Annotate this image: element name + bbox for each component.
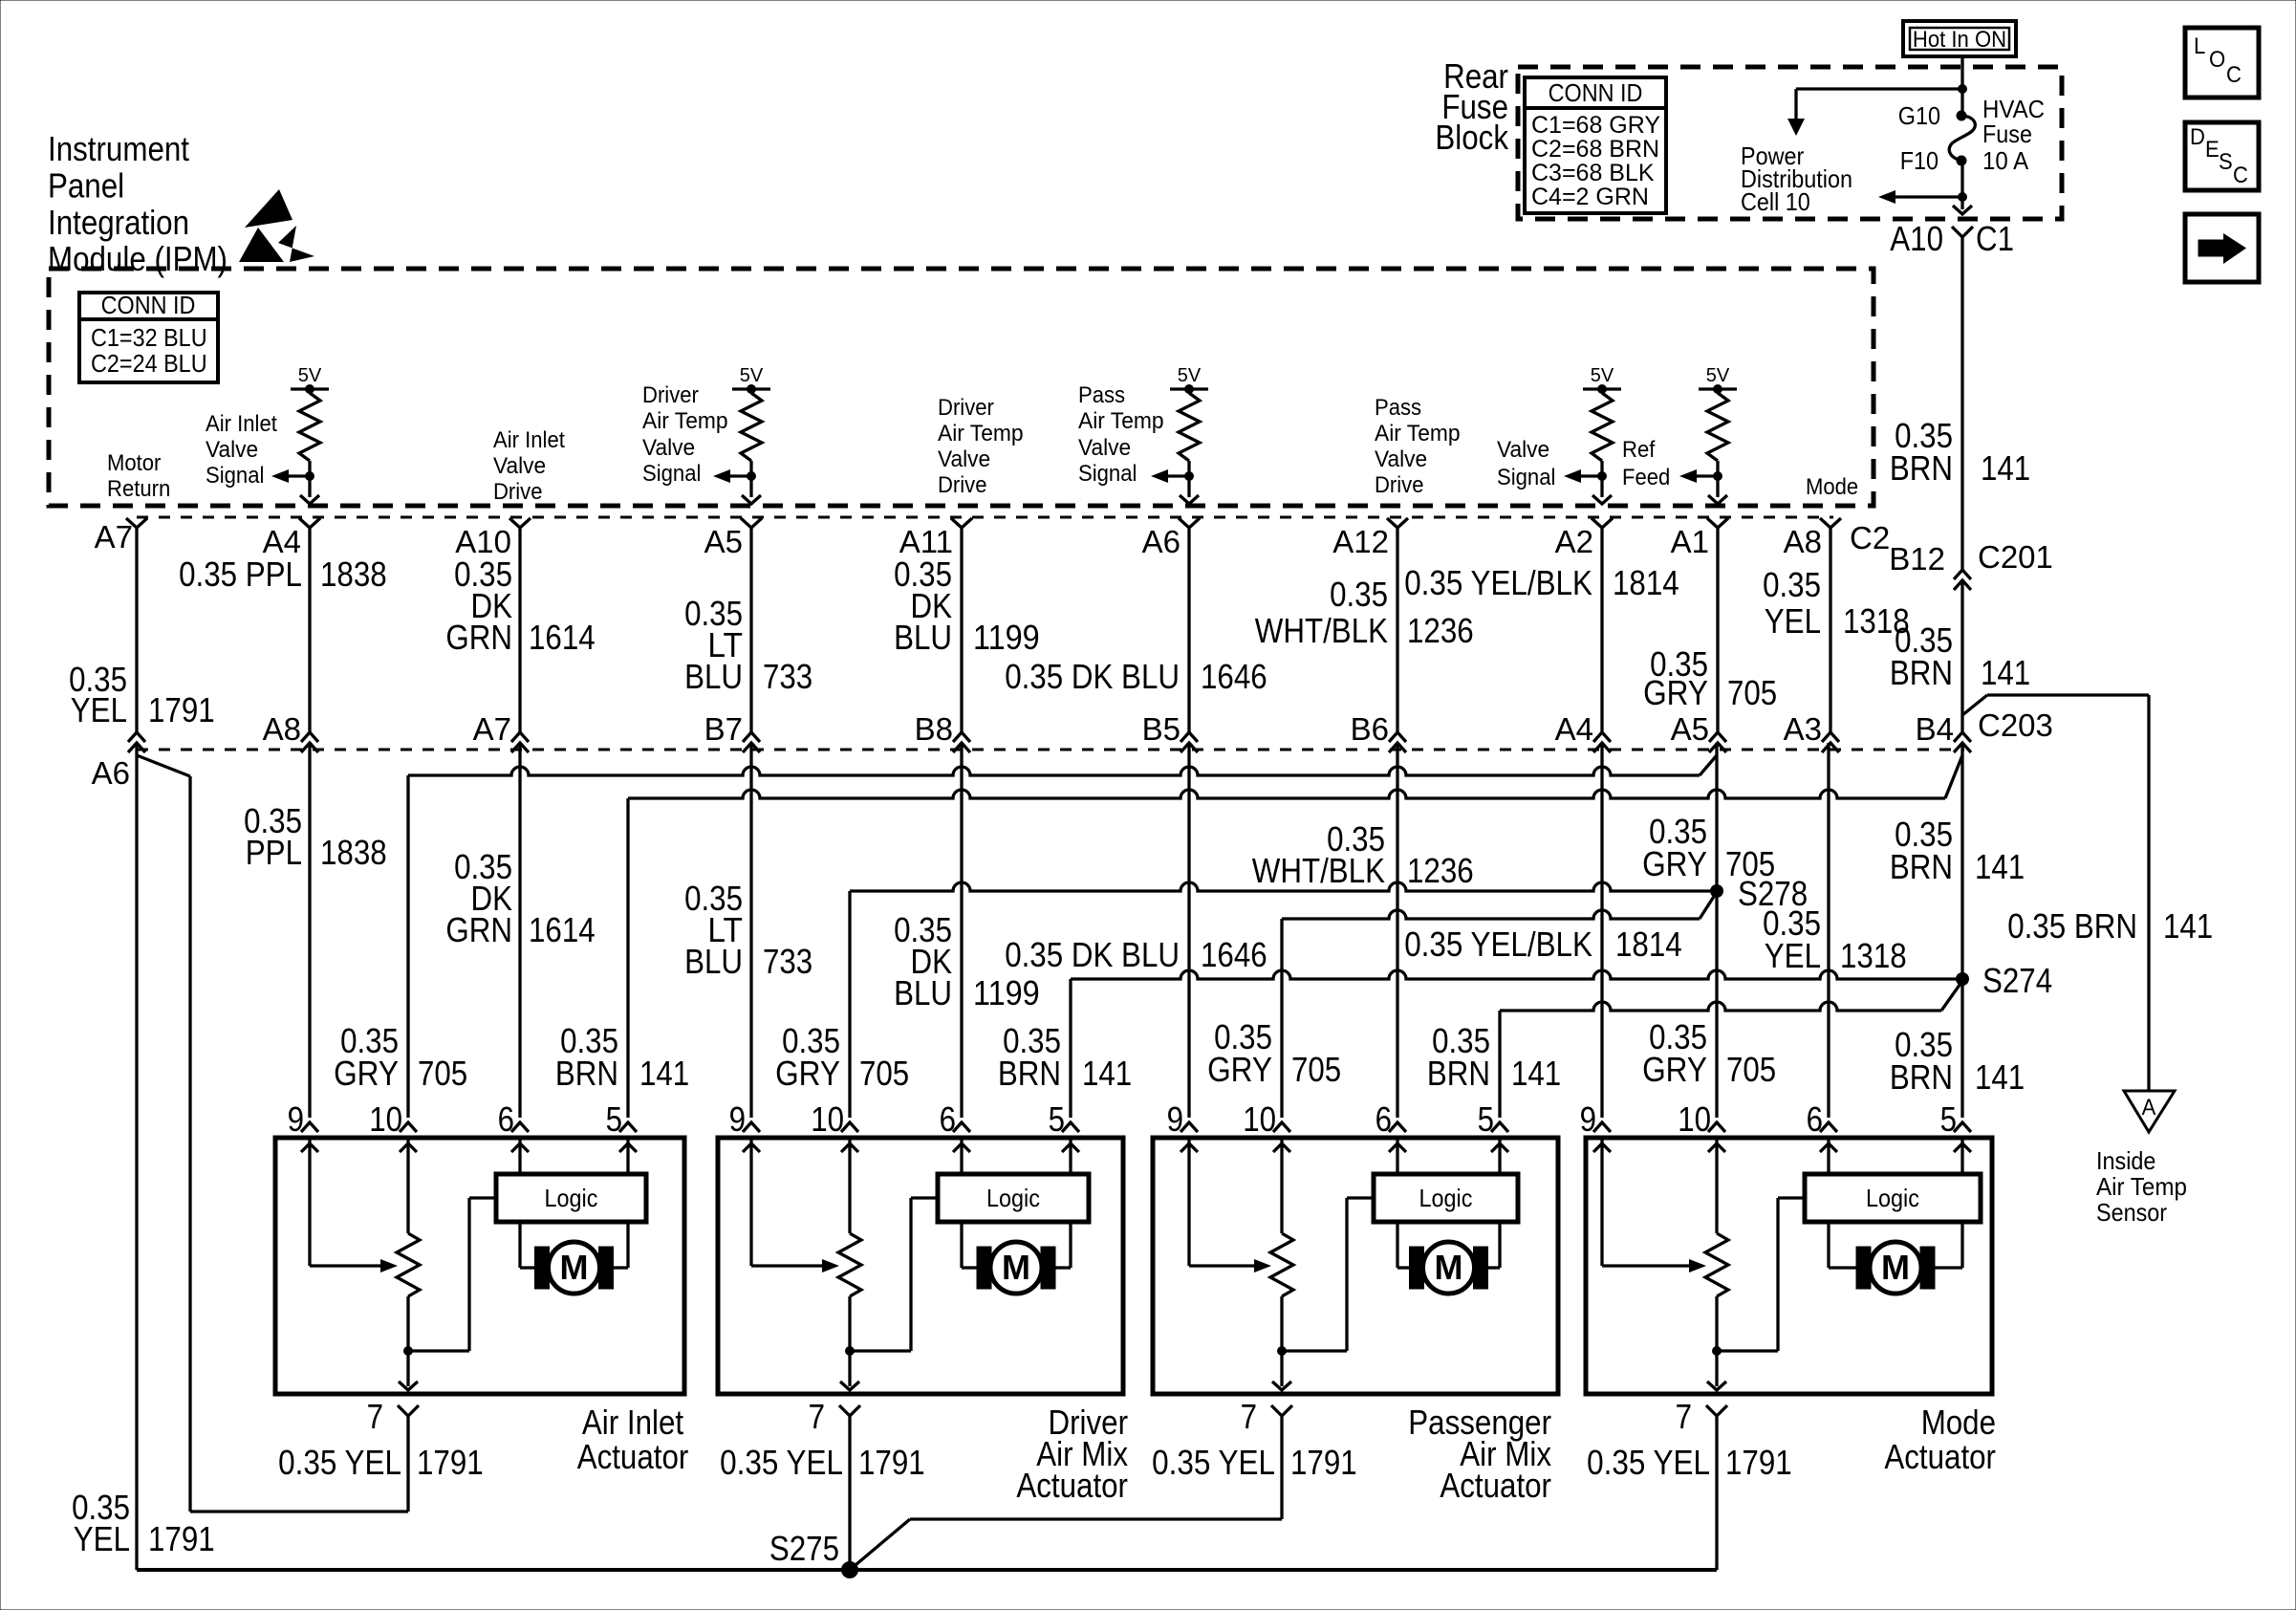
svg-text:BRN: BRN bbox=[1890, 653, 1953, 692]
svg-text:Pass: Pass bbox=[1078, 382, 1125, 408]
svg-text:C1=68 GRY: C1=68 GRY bbox=[1531, 112, 1660, 139]
svg-text:BLU: BLU bbox=[684, 657, 743, 696]
svg-text:C3=68 BLK: C3=68 BLK bbox=[1531, 160, 1655, 186]
svg-text:Valve: Valve bbox=[1375, 446, 1427, 472]
svg-text:Air Temp: Air Temp bbox=[2096, 1172, 2187, 1201]
svg-text:Hot In ON: Hot In ON bbox=[1913, 27, 2006, 53]
svg-text:0.35 YEL: 0.35 YEL bbox=[278, 1443, 401, 1482]
svg-text:Cell 10: Cell 10 bbox=[1741, 187, 1810, 216]
svg-text:6: 6 bbox=[498, 1099, 514, 1139]
svg-text:BLU: BLU bbox=[894, 618, 952, 657]
svg-text:Panel: Panel bbox=[48, 165, 124, 205]
svg-text:S275: S275 bbox=[769, 1529, 839, 1568]
svg-text:Feed: Feed bbox=[1622, 465, 1670, 490]
svg-text:WHT/BLK: WHT/BLK bbox=[1252, 851, 1385, 890]
svg-text:0.35 YEL/BLK: 0.35 YEL/BLK bbox=[1404, 925, 1592, 964]
svg-text:CONN ID: CONN ID bbox=[101, 291, 196, 319]
svg-text:705: 705 bbox=[1726, 1050, 1776, 1089]
svg-text:0.35 PPL: 0.35 PPL bbox=[179, 555, 302, 594]
svg-text:7: 7 bbox=[367, 1397, 383, 1436]
svg-text:GRY: GRY bbox=[1643, 673, 1708, 712]
svg-text:705: 705 bbox=[418, 1054, 467, 1093]
svg-text:A12: A12 bbox=[1332, 524, 1389, 559]
svg-text:YEL: YEL bbox=[1765, 601, 1821, 641]
svg-text:6: 6 bbox=[940, 1099, 956, 1139]
svg-text:A: A bbox=[2142, 1095, 2156, 1120]
svg-text:Mode: Mode bbox=[1921, 1403, 1996, 1442]
svg-text:705: 705 bbox=[1291, 1050, 1341, 1089]
svg-text:C1: C1 bbox=[1976, 219, 2014, 258]
svg-text:BRN: BRN bbox=[1890, 448, 1953, 488]
svg-text:Logic: Logic bbox=[1419, 1184, 1473, 1212]
svg-text:Air Temp: Air Temp bbox=[938, 421, 1024, 446]
svg-text:YEL: YEL bbox=[74, 1519, 130, 1558]
svg-text:BRN: BRN bbox=[1890, 847, 1953, 886]
svg-text:M: M bbox=[1881, 1248, 1910, 1287]
svg-text:1838: 1838 bbox=[320, 833, 387, 872]
svg-text:Signal: Signal bbox=[1497, 465, 1555, 490]
svg-text:9: 9 bbox=[1167, 1099, 1183, 1139]
svg-text:10: 10 bbox=[1243, 1099, 1276, 1139]
svg-text:0.35 YEL/BLK: 0.35 YEL/BLK bbox=[1404, 563, 1592, 602]
svg-text:705: 705 bbox=[859, 1054, 909, 1093]
svg-text:10: 10 bbox=[1678, 1099, 1711, 1139]
svg-text:A6: A6 bbox=[1142, 524, 1180, 559]
svg-text:141: 141 bbox=[1975, 847, 2025, 886]
svg-text:1199: 1199 bbox=[973, 973, 1040, 1012]
svg-text:GRY: GRY bbox=[1642, 1050, 1707, 1089]
svg-text:Logic: Logic bbox=[986, 1184, 1040, 1212]
svg-text:Inside: Inside bbox=[2096, 1146, 2155, 1175]
svg-text:Mode: Mode bbox=[1806, 474, 1858, 500]
svg-text:Logic: Logic bbox=[545, 1184, 598, 1212]
svg-text:Air Inlet: Air Inlet bbox=[206, 411, 277, 437]
svg-text:6: 6 bbox=[1375, 1099, 1392, 1139]
svg-text:5: 5 bbox=[1049, 1099, 1065, 1139]
svg-text:1614: 1614 bbox=[529, 618, 596, 657]
svg-text:0.35: 0.35 bbox=[1330, 575, 1388, 614]
svg-text:1236: 1236 bbox=[1407, 851, 1474, 890]
svg-text:733: 733 bbox=[763, 942, 812, 981]
svg-text:1791: 1791 bbox=[1290, 1443, 1357, 1482]
svg-text:7: 7 bbox=[809, 1397, 825, 1436]
svg-text:B5: B5 bbox=[1142, 711, 1180, 747]
svg-text:1646: 1646 bbox=[1201, 657, 1267, 696]
svg-text:C: C bbox=[2233, 163, 2248, 188]
svg-text:1791: 1791 bbox=[858, 1443, 925, 1482]
svg-text:10: 10 bbox=[811, 1099, 844, 1139]
svg-text:GRN: GRN bbox=[445, 618, 512, 657]
svg-text:BRN: BRN bbox=[1427, 1054, 1490, 1093]
svg-text:A8: A8 bbox=[1784, 524, 1822, 559]
svg-text:Integration: Integration bbox=[48, 203, 189, 242]
svg-text:7: 7 bbox=[1676, 1397, 1692, 1436]
svg-text:141: 141 bbox=[639, 1054, 689, 1093]
svg-text:0.35 BRN: 0.35 BRN bbox=[2007, 906, 2137, 946]
svg-text:7: 7 bbox=[1241, 1397, 1257, 1436]
svg-text:Valve: Valve bbox=[1078, 435, 1131, 461]
svg-text:Instrument: Instrument bbox=[48, 129, 189, 168]
svg-text:S: S bbox=[2219, 149, 2233, 175]
svg-text:L: L bbox=[2194, 33, 2205, 59]
svg-text:0.35 YEL: 0.35 YEL bbox=[720, 1443, 843, 1482]
svg-text:GRY: GRY bbox=[1642, 844, 1707, 883]
svg-text:5V: 5V bbox=[1591, 365, 1614, 386]
svg-text:C201: C201 bbox=[1978, 539, 2053, 575]
svg-text:C203: C203 bbox=[1978, 707, 2053, 743]
svg-text:Actuator: Actuator bbox=[1884, 1437, 1996, 1476]
svg-text:YEL: YEL bbox=[71, 690, 127, 729]
svg-text:A8: A8 bbox=[263, 711, 301, 747]
svg-text:1614: 1614 bbox=[529, 910, 596, 949]
svg-text:A2: A2 bbox=[1555, 524, 1593, 559]
svg-text:Return: Return bbox=[107, 476, 170, 502]
svg-text:C2=68 BRN: C2=68 BRN bbox=[1531, 136, 1659, 163]
svg-text:Actuator: Actuator bbox=[1440, 1466, 1551, 1505]
svg-text:Actuator: Actuator bbox=[1016, 1466, 1128, 1505]
svg-text:141: 141 bbox=[1511, 1054, 1561, 1093]
svg-text:S274: S274 bbox=[1982, 961, 2052, 1000]
svg-text:A4: A4 bbox=[1555, 711, 1593, 747]
svg-text:1814: 1814 bbox=[1613, 563, 1679, 602]
svg-text:C4=2 GRN: C4=2 GRN bbox=[1531, 184, 1649, 210]
svg-text:Valve: Valve bbox=[642, 435, 695, 461]
svg-text:M: M bbox=[1002, 1248, 1030, 1287]
svg-text:141: 141 bbox=[1981, 653, 2030, 692]
svg-text:Sensor: Sensor bbox=[2096, 1198, 2167, 1227]
svg-text:E: E bbox=[2205, 137, 2220, 163]
svg-text:Signal: Signal bbox=[1078, 461, 1137, 487]
svg-text:BLU: BLU bbox=[894, 973, 952, 1012]
svg-text:10 A: 10 A bbox=[1982, 146, 2029, 175]
svg-text:733: 733 bbox=[763, 657, 812, 696]
svg-text:Ref: Ref bbox=[1622, 437, 1656, 463]
svg-text:0.35 DK BLU: 0.35 DK BLU bbox=[1005, 935, 1180, 974]
svg-text:705: 705 bbox=[1725, 844, 1775, 883]
svg-text:1236: 1236 bbox=[1407, 611, 1474, 650]
svg-text:Block: Block bbox=[1435, 118, 1508, 157]
svg-text:CONN ID: CONN ID bbox=[1549, 78, 1643, 107]
svg-text:D: D bbox=[2190, 124, 2205, 150]
svg-text:C: C bbox=[2226, 62, 2242, 88]
svg-text:GRN: GRN bbox=[445, 910, 512, 949]
svg-text:5V: 5V bbox=[298, 365, 322, 386]
svg-text:1646: 1646 bbox=[1201, 935, 1267, 974]
svg-text:A7: A7 bbox=[473, 711, 511, 747]
svg-text:1791: 1791 bbox=[1725, 1443, 1792, 1482]
svg-text:5: 5 bbox=[1940, 1099, 1957, 1139]
svg-text:A10: A10 bbox=[1890, 219, 1943, 258]
svg-text:1791: 1791 bbox=[148, 690, 215, 729]
svg-text:C1=32 BLU: C1=32 BLU bbox=[91, 323, 207, 352]
svg-text:M: M bbox=[1435, 1248, 1463, 1287]
svg-text:5V: 5V bbox=[740, 365, 764, 386]
svg-text:9: 9 bbox=[1580, 1099, 1596, 1139]
svg-text:A6: A6 bbox=[92, 755, 130, 791]
svg-text:5V: 5V bbox=[1706, 365, 1730, 386]
svg-text:GRY: GRY bbox=[775, 1054, 840, 1093]
svg-text:5: 5 bbox=[606, 1099, 622, 1139]
svg-text:WHT/BLK: WHT/BLK bbox=[1255, 611, 1388, 650]
svg-text:O: O bbox=[2209, 47, 2225, 73]
svg-text:0.35 DK BLU: 0.35 DK BLU bbox=[1005, 657, 1180, 696]
svg-text:1791: 1791 bbox=[417, 1443, 484, 1482]
svg-text:M: M bbox=[560, 1248, 589, 1287]
svg-text:A3: A3 bbox=[1784, 711, 1822, 747]
svg-text:705: 705 bbox=[1727, 673, 1777, 712]
svg-text:1838: 1838 bbox=[320, 555, 387, 594]
svg-text:Module (IPM): Module (IPM) bbox=[48, 239, 227, 278]
svg-text:Driver: Driver bbox=[938, 395, 994, 421]
svg-text:Air Inlet: Air Inlet bbox=[582, 1403, 683, 1442]
svg-text:BRN: BRN bbox=[1890, 1057, 1953, 1097]
svg-text:C2: C2 bbox=[1850, 520, 1890, 555]
svg-text:1199: 1199 bbox=[973, 618, 1040, 657]
svg-text:0.35 YEL: 0.35 YEL bbox=[1152, 1443, 1275, 1482]
svg-text:BRN: BRN bbox=[555, 1054, 618, 1093]
svg-text:BLU: BLU bbox=[684, 942, 743, 981]
svg-text:B6: B6 bbox=[1351, 711, 1389, 747]
svg-text:Drive: Drive bbox=[938, 472, 987, 498]
svg-text:141: 141 bbox=[1082, 1054, 1132, 1093]
svg-text:B4: B4 bbox=[1916, 711, 1954, 747]
svg-text:G10: G10 bbox=[1898, 101, 1940, 130]
svg-text:Driver: Driver bbox=[642, 382, 699, 408]
svg-text:BRN: BRN bbox=[998, 1054, 1061, 1093]
svg-text:0.35 YEL: 0.35 YEL bbox=[1587, 1443, 1710, 1482]
svg-text:1791: 1791 bbox=[148, 1519, 215, 1558]
svg-text:Motor: Motor bbox=[107, 450, 161, 476]
svg-text:Drive: Drive bbox=[493, 479, 543, 505]
svg-text:141: 141 bbox=[1981, 448, 2030, 488]
svg-text:Valve: Valve bbox=[938, 446, 990, 472]
svg-text:1318: 1318 bbox=[1840, 936, 1907, 975]
svg-text:6: 6 bbox=[1807, 1099, 1823, 1139]
svg-text:Signal: Signal bbox=[206, 463, 264, 489]
svg-text:Air Temp: Air Temp bbox=[1078, 408, 1164, 434]
svg-text:5: 5 bbox=[1478, 1099, 1494, 1139]
svg-text:PPL: PPL bbox=[246, 833, 302, 872]
svg-text:YEL: YEL bbox=[1765, 936, 1821, 975]
svg-text:A5: A5 bbox=[704, 524, 743, 559]
svg-text:Fuse: Fuse bbox=[1982, 120, 2032, 148]
svg-text:9: 9 bbox=[288, 1099, 304, 1139]
svg-text:Air Inlet: Air Inlet bbox=[493, 427, 565, 453]
svg-text:A5: A5 bbox=[1671, 711, 1709, 747]
svg-text:B8: B8 bbox=[915, 711, 953, 747]
svg-text:Signal: Signal bbox=[642, 461, 701, 487]
svg-text:1814: 1814 bbox=[1615, 925, 1682, 964]
svg-text:GRY: GRY bbox=[1207, 1050, 1272, 1089]
svg-text:Valve: Valve bbox=[206, 437, 258, 463]
svg-text:F10: F10 bbox=[1900, 146, 1939, 175]
svg-text:GRY: GRY bbox=[334, 1054, 399, 1093]
svg-text:Actuator: Actuator bbox=[577, 1437, 689, 1476]
svg-text:10: 10 bbox=[369, 1099, 402, 1139]
svg-text:B12: B12 bbox=[1889, 541, 1945, 577]
svg-text:141: 141 bbox=[1975, 1057, 2025, 1097]
svg-text:9: 9 bbox=[729, 1099, 746, 1139]
svg-text:Pass: Pass bbox=[1375, 395, 1421, 421]
svg-text:5V: 5V bbox=[1178, 365, 1202, 386]
svg-text:0.35: 0.35 bbox=[1763, 565, 1821, 604]
svg-text:A1: A1 bbox=[1671, 524, 1709, 559]
svg-text:C2=24 BLU: C2=24 BLU bbox=[91, 349, 207, 378]
svg-text:141: 141 bbox=[2163, 906, 2213, 946]
svg-text:Air Temp: Air Temp bbox=[642, 408, 728, 434]
svg-text:Valve: Valve bbox=[1497, 437, 1549, 463]
svg-text:Valve: Valve bbox=[493, 453, 546, 479]
svg-text:Drive: Drive bbox=[1375, 472, 1424, 498]
svg-text:Air Temp: Air Temp bbox=[1375, 421, 1461, 446]
svg-text:B7: B7 bbox=[704, 711, 743, 747]
svg-text:A7: A7 bbox=[95, 519, 133, 555]
svg-text:Logic: Logic bbox=[1866, 1184, 1919, 1212]
